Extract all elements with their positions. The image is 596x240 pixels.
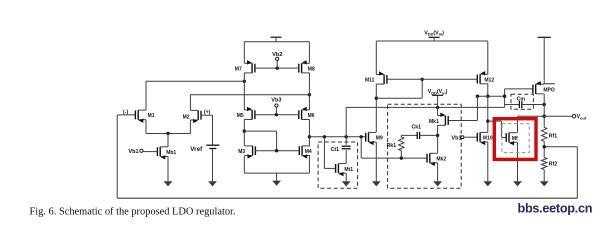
wire: Ct1 bottom to Mt1 drain	[345, 150, 347, 164]
wire: M1 drain up to M7/M5 node	[146, 81, 244, 110]
wire: M7/M8 gate line	[255, 67, 300, 69]
node Vb3 terminal	[275, 104, 278, 107]
wire: mirror diode connection	[376, 79, 422, 98]
label Rf1	[549, 133, 557, 139]
transistor M8	[299, 60, 315, 73]
svg-text:VDD(Vin): VDD(Vin)	[424, 30, 444, 36]
node junction Mk2 route tap	[360, 135, 363, 138]
wire: feedback left vertical	[116, 115, 118, 198]
svg-text:M8: M8	[308, 66, 315, 72]
wire+ground: Rf2 to ground	[540, 170, 549, 187]
node Vb1 terminal (left)	[140, 149, 143, 152]
label VDD(Vin) top	[424, 30, 444, 36]
wire+ground: Mf source	[513, 142, 522, 186]
svg-text:Mt1: Mt1	[344, 167, 353, 173]
node junction Mf gate tap	[486, 119, 489, 122]
node junction feedback tap	[543, 145, 546, 148]
wire: node up-and-over line (L1)	[346, 107, 504, 136]
wire: Mf drain to output	[517, 116, 519, 133]
wire: Ck1 left lead	[401, 134, 417, 136]
resistor Rf1	[542, 127, 547, 141]
box: Cm dashed box	[511, 94, 533, 109]
svg-text:Mk1: Mk1	[429, 119, 439, 125]
wire: M12 drain down	[487, 84, 489, 133]
label Vb3	[271, 98, 281, 104]
node junction Rk1 bottom	[400, 156, 403, 159]
svg-text:M3: M3	[238, 149, 245, 155]
wire: feedback tap line	[544, 146, 577, 148]
svg-text:M4: M4	[305, 149, 312, 155]
wire: first stage output node line	[309, 136, 366, 138]
transistor Mf	[506, 133, 518, 146]
component Vref battery	[206, 145, 219, 148]
wire: M3 source down	[243, 156, 245, 174]
wire+ground: M9 source	[372, 142, 381, 186]
label Vb1 (left)	[128, 149, 138, 155]
wire: M9 drain to M11 drain	[375, 84, 377, 132]
wire: M7 drain to M5 source	[243, 73, 245, 110]
wire: Cm right lead	[522, 104, 544, 106]
wire: differential pair tail	[146, 120, 190, 134]
capacitor Ct1	[342, 146, 351, 149]
transistor M2	[183, 110, 201, 123]
transistor M6	[299, 107, 315, 120]
svg-text:VDD(Vin): VDD(Vin)	[428, 89, 448, 95]
power VDD symbol (mid)	[432, 95, 443, 115]
node junction node-B / MPO gate	[503, 95, 506, 98]
wire: Vb2 to gate line	[276, 61, 278, 69]
svg-text:M9: M9	[376, 136, 383, 142]
node junction first-stage output	[308, 135, 311, 138]
svg-text:M11: M11	[365, 78, 375, 84]
power VDD symbol (left rail)	[271, 37, 282, 42]
wire: M4 source down	[308, 156, 310, 174]
capacitor Ck1	[417, 132, 419, 139]
wire: top rail M7-M8	[244, 41, 309, 43]
node junction M2 drain / M8-M6	[308, 93, 311, 96]
wire: bottom rail M3-M4	[244, 172, 309, 174]
wire: Cm left lead	[505, 104, 520, 106]
transistor M7	[235, 60, 255, 73]
wire: M11/M12 gate line	[387, 78, 478, 80]
watermark bbs.eetop.cn	[518, 202, 593, 216]
wire: top rail M11-M12	[376, 40, 488, 42]
wire+ground: Mk2 source	[433, 163, 442, 187]
svg-text:Vout: Vout	[577, 114, 587, 120]
svg-text:Vb1: Vb1	[451, 135, 461, 141]
transistor M11	[365, 71, 387, 84]
svg-text:Rf2: Rf2	[549, 162, 557, 168]
wire: gate tap over to M3/M4 gates	[244, 131, 276, 151]
label Vout	[577, 114, 587, 120]
node junction Vb2/gate line	[276, 66, 279, 69]
box: Q-reduction dashed box	[388, 104, 462, 188]
wire+ground: Mt1 source	[342, 173, 351, 186]
wire: M2 gate to Vref	[201, 115, 213, 145]
svg-text:Mb1: Mb1	[166, 150, 176, 156]
wire+ground: Mb1 source	[164, 156, 173, 186]
label Rk1	[387, 143, 397, 149]
node Vb1 terminal (right)	[461, 136, 464, 139]
component Vref label	[190, 146, 203, 153]
wire: Vout line	[518, 115, 573, 117]
ground: first stage bottom rail	[272, 173, 281, 186]
wire: Vb3 to gate line	[275, 107, 277, 115]
node junction Vout	[543, 115, 546, 118]
wire: node B corner vertical	[504, 89, 506, 108]
wire: rail to M11 source	[375, 41, 377, 75]
wire+ground: M10 source	[483, 142, 492, 186]
wire: Vb1 to Mb1 gate	[143, 151, 158, 153]
svg-text:bbs.eetop.cn: bbs.eetop.cn	[518, 202, 593, 216]
svg-text:Rf1: Rf1	[549, 133, 557, 139]
wire: M2 drain up to M8/M6 node	[190, 95, 309, 111]
transistor Mk1	[429, 113, 448, 126]
node junction Ck1 right	[436, 134, 439, 137]
label Cm	[517, 97, 526, 103]
transistor M5	[237, 107, 255, 120]
wire: M3/M4 gate line	[255, 150, 300, 152]
wire: node route to Mk2 gate	[361, 137, 426, 158]
transistor M4	[299, 146, 312, 159]
svg-text:Fig. 6. Schematic of the propo: Fig. 6. Schematic of the proposed LDO re…	[30, 207, 236, 218]
wire: Mb1 drain	[167, 134, 169, 147]
label Vb2	[272, 52, 282, 58]
label Ct1	[331, 147, 339, 153]
wire: M5/M6 gate line	[255, 114, 300, 116]
wire: Ck1 right lead	[420, 134, 438, 136]
node junction M5-M3 gate tap	[243, 129, 246, 132]
transistor M1	[135, 110, 154, 123]
wire: MPO drain down	[543, 94, 545, 128]
wire: Vb1 to M10 gate	[464, 136, 478, 138]
svg-text:Vb1: Vb1	[128, 149, 138, 155]
wire: rail to M8 source	[308, 42, 310, 64]
label VDD(Vin) mid	[428, 89, 448, 95]
power VDD symbol (MPO)	[538, 37, 551, 84]
box: Ct1/Mt1 dashed box	[318, 142, 358, 188]
wire: rail to M7 source	[243, 42, 245, 64]
svg-text:Rk1: Rk1	[387, 143, 397, 149]
wire: node B horizontal	[477, 95, 504, 97]
node junction node-B at M12 drain	[486, 95, 489, 98]
svg-text:Mk2: Mk2	[436, 157, 446, 163]
svg-text:(-): (-)	[123, 110, 128, 116]
node junction Mk1 gate riser	[476, 95, 479, 98]
transistor M9	[366, 132, 383, 145]
capacitor Cm	[519, 101, 521, 108]
node (-) input label	[123, 110, 128, 116]
transistor Mb1	[157, 147, 176, 160]
wire: Mk1 gate riser	[448, 96, 477, 120]
wire: feedback right vertical	[576, 147, 578, 198]
caption text	[30, 207, 236, 218]
label Ck1	[412, 124, 422, 130]
wire: node to Mt1 gate	[324, 137, 335, 169]
wire+ground: Vref to ground	[208, 149, 217, 187]
node junction Ct1 tap	[345, 135, 348, 138]
node Vb2 terminal	[276, 57, 279, 60]
wire: M6 drain to M4 drain	[308, 120, 310, 147]
box: red highlight box	[494, 119, 536, 160]
svg-text:M6: M6	[308, 113, 315, 119]
wire: node to Ct1 top	[345, 137, 347, 145]
svg-text:(+): (+)	[204, 109, 211, 115]
svg-text:MPO: MPO	[543, 87, 555, 93]
svg-text:Vref: Vref	[190, 146, 203, 153]
svg-text:Cm: Cm	[517, 97, 526, 103]
label Rf2	[549, 162, 557, 168]
svg-text:M7: M7	[235, 66, 242, 72]
svg-text:M12: M12	[484, 77, 494, 83]
wire: M5 drain to M3 drain	[243, 120, 245, 147]
node (+) input label	[204, 109, 211, 115]
node junction M1 drain / M7-M5	[243, 80, 246, 83]
box: Mf inner gray dashed box	[502, 124, 529, 153]
node junction on M11/M12 gate line	[421, 78, 424, 81]
svg-text:M5: M5	[237, 113, 244, 119]
wire: rail to M12 source	[487, 41, 489, 74]
node junction Mt1 gate tap	[323, 135, 326, 138]
wire: feedback to (-) input of M1	[117, 114, 136, 116]
transistor MPO	[533, 81, 555, 94]
svg-text:Ck1: Ck1	[412, 124, 422, 130]
svg-text:Ct1: Ct1	[331, 147, 339, 153]
wire: Mf gate route	[488, 121, 507, 137]
node junction L1/VDD column	[436, 106, 439, 109]
resistor Rk1	[399, 135, 404, 158]
wire: Mk1 drain down	[437, 125, 439, 153]
svg-text:M1: M1	[148, 113, 155, 119]
resistor Rf2	[542, 158, 547, 170]
transistor M10	[477, 132, 493, 145]
svg-text:M10: M10	[483, 136, 493, 142]
wire: M8 drain to M6 source	[308, 73, 310, 110]
wire: feedback bottom line	[117, 197, 577, 199]
node junction M9/M11 drains	[375, 97, 378, 100]
label Vb1 (right)	[451, 135, 461, 141]
transistor Mk2	[427, 153, 446, 166]
node junction Vb3/gate line	[275, 113, 278, 116]
svg-text:M2: M2	[183, 114, 190, 120]
node Vout terminal	[572, 115, 575, 118]
node tail junction	[166, 132, 169, 135]
transistor M12	[477, 71, 494, 84]
svg-text:Vb3: Vb3	[271, 98, 281, 104]
svg-text:Mf: Mf	[512, 136, 518, 142]
transistor M3	[238, 146, 255, 159]
power VDD(Vin) symbol (top)	[429, 37, 440, 41]
svg-text:Vb2: Vb2	[272, 52, 282, 58]
transistor Mt1	[336, 164, 354, 177]
wire: MPO gate lead	[505, 88, 533, 90]
node junction Cm/MPO drain	[543, 103, 546, 106]
node junction M3/M4 gate line	[275, 149, 278, 152]
wire: Rf1 to tap	[543, 141, 545, 157]
